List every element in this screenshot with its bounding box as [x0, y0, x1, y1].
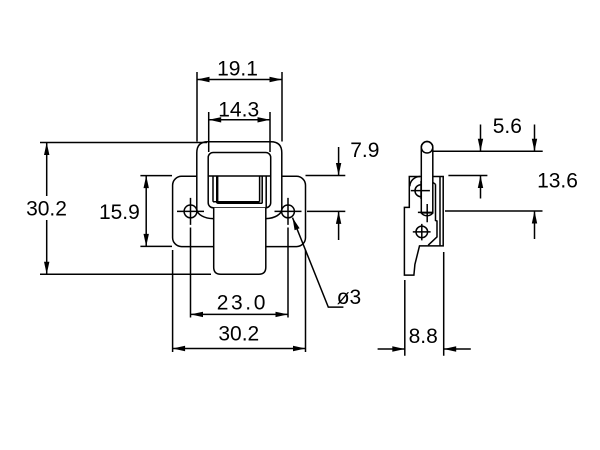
dim 30.2 bottom	[173, 250, 306, 352]
svg-text:ø3: ø3	[337, 286, 362, 309]
arrow dia3 leader	[293, 218, 300, 231]
base plate	[173, 176, 306, 246]
side hole lower	[416, 226, 428, 238]
svg-text:30.2: 30.2	[218, 323, 259, 346]
dim 19.1	[197, 72, 282, 142]
rod cap circle	[421, 142, 433, 154]
svg-text:13.6: 13.6	[537, 170, 578, 193]
dim 13.6	[445, 125, 543, 240]
svg-text:30.2: 30.2	[26, 198, 67, 221]
window inner edge thick	[216, 176, 218, 203]
arrows 7.9	[336, 163, 341, 176]
window inner lines right	[217, 176, 266, 208]
svg-text:23.0: 23.0	[217, 291, 268, 314]
wire bail loop	[197, 142, 282, 219]
svg-text:15.9: 15.9	[99, 201, 140, 224]
mounting hole right	[282, 205, 295, 218]
svg-text:5.6: 5.6	[493, 115, 522, 138]
latch cover	[208, 153, 271, 208]
side plate inner lines	[428, 177, 440, 246]
arrows 8.8	[392, 346, 405, 351]
dim 8.8	[378, 252, 471, 356]
dim 30.2 left	[40, 143, 211, 275]
arrows 15.9	[144, 176, 149, 189]
dim 15.9	[140, 176, 172, 247]
dim 7.9	[306, 147, 346, 240]
cover window opening	[208, 176, 271, 202]
dim 23.0	[191, 313, 289, 315]
side hole upper crosshair	[411, 181, 430, 199]
svg-text:19.1: 19.1	[217, 58, 258, 81]
leader dia 3	[293, 218, 344, 308]
arrows 19.1	[197, 77, 210, 82]
arrows 5.6	[478, 139, 483, 152]
rod end curve	[421, 213, 433, 216]
side rod	[421, 142, 433, 213]
arrows 30.2 bottom	[173, 346, 186, 351]
arrows 30.2 left	[44, 143, 49, 156]
side hole upper	[415, 185, 427, 197]
svg-text:8.8: 8.8	[409, 325, 438, 348]
dim 5.6	[434, 125, 543, 199]
mounting hole left	[184, 205, 197, 218]
rod end centre mark	[418, 204, 433, 222]
dim 14.3	[209, 112, 270, 152]
side view plate	[404, 177, 443, 276]
side bend upper arc	[410, 177, 420, 187]
svg-text:7.9: 7.9	[350, 139, 379, 162]
svg-text:14.3: 14.3	[218, 99, 259, 122]
arrows 13.6	[532, 139, 537, 152]
arrows 23.0	[191, 312, 204, 317]
arrows 14.3	[209, 117, 222, 122]
hole centre extension lines	[191, 228, 289, 318]
latch strap	[214, 208, 266, 274]
